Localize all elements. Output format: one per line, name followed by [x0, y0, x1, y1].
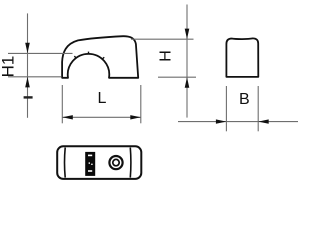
top view body outline	[57, 146, 141, 179]
end view clip outline	[226, 38, 258, 77]
dimension B line	[178, 121, 298, 123]
dimension H bottom extension line	[158, 76, 196, 78]
tick bar on H1 dimension line	[24, 96, 33, 98]
svg-text:H: H	[157, 50, 174, 62]
dimension L line	[62, 116, 141, 118]
dimension H down arrow	[185, 29, 190, 39]
dimension L right arrow	[130, 115, 141, 119]
dimension B left-pointing arrow	[258, 119, 269, 123]
top view right end-cap line	[129, 148, 132, 178]
screw hole inner ring	[113, 159, 119, 165]
dimension L left arrow	[62, 115, 73, 119]
svg-text:H1: H1	[0, 56, 17, 78]
dimension H1 down arrow	[25, 43, 30, 54]
dimension H1 up arrow	[25, 77, 30, 88]
dimension H1 line	[27, 13, 29, 117]
side view clip outline	[62, 36, 138, 78]
dimension H top extension line	[131, 38, 194, 40]
svg-text:L: L	[98, 90, 107, 107]
dimension L left extension line	[61, 85, 63, 123]
dimension B left extension line	[225, 86, 227, 131]
arch serration ticks	[74, 52, 104, 59]
nail slot highlights	[88, 155, 93, 172]
svg-text:B: B	[239, 91, 250, 108]
dimension B right-pointing arrow	[216, 119, 227, 123]
nail slot	[85, 152, 95, 176]
dimension H1 bottom extension line	[8, 76, 62, 78]
dimension B right extension line	[257, 86, 259, 131]
screw hole outer ring	[109, 156, 122, 169]
top view left end-cap line	[64, 148, 67, 178]
dimension H line	[186, 5, 188, 118]
dimension H1 top extension line	[8, 52, 73, 54]
dimension H up arrow	[185, 77, 190, 88]
dimension L right extension line	[140, 85, 142, 123]
